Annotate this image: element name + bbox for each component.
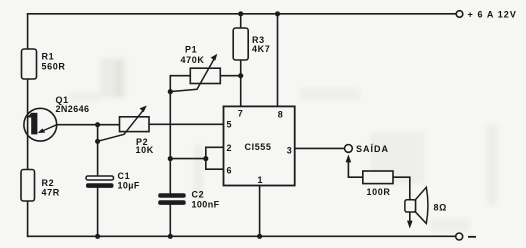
- svg-text:2: 2: [227, 143, 232, 153]
- P2 wiper arrow: [98, 110, 144, 142]
- wire pins 2-6 bracket: [205, 147, 207, 169]
- Q1 base bar: [31, 113, 37, 135]
- svg-text:1: 1: [258, 175, 263, 185]
- wire pin 2 stub: [206, 146, 224, 148]
- speaker LS1 8 ohm: [405, 187, 447, 228]
- node negative supply terminal: [456, 233, 476, 240]
- wire pin 8 branch: [277, 14, 279, 107]
- junction P2 wiper / C1 node: [95, 139, 100, 144]
- wire P1 right terminal: [220, 75, 240, 77]
- wire node link: [97, 125, 99, 142]
- svg-text:R2: R2: [42, 178, 55, 188]
- resistor R1: [22, 49, 66, 79]
- wire node to C1 top: [97, 141, 99, 176]
- svg-text:3: 3: [287, 145, 292, 155]
- wire pin 1 to ground rail: [259, 186, 261, 237]
- svg-text:C1: C1: [118, 171, 131, 181]
- wire speaker to arrow: [409, 212, 411, 222]
- svg-text:470K: 470K: [181, 55, 205, 65]
- junction P1 wiper / left terminal node: [168, 89, 173, 94]
- wire mid vertical to C2 top: [169, 76, 171, 194]
- arrow pointing down to ground rail: [407, 221, 413, 229]
- wire bottom rail: [28, 235, 456, 237]
- svg-text:SAÍDA: SAÍDA: [356, 144, 389, 154]
- speaker cone: [416, 187, 428, 223]
- resistor R2: [21, 170, 60, 202]
- potentiometer P1: [170, 45, 220, 92]
- wire left branch vertical: [27, 14, 29, 237]
- wire pin 3 output: [295, 147, 345, 149]
- svg-text:100nF: 100nF: [192, 200, 220, 210]
- Q1 emitter arrow: [41, 125, 57, 132]
- wire C1 bottom to ground rail: [97, 188, 99, 237]
- potentiometer P2: [98, 106, 154, 156]
- wire P2 to pin 5: [149, 123, 224, 125]
- arrow pointing up to SAIDA node: [346, 154, 352, 162]
- junction C2 / pins 2-6 node: [168, 156, 173, 161]
- capacitor C2: [158, 190, 219, 210]
- P1 wiper arrow: [170, 59, 214, 92]
- junction ground rail / C2 branch: [168, 234, 173, 239]
- wire top rail: [28, 13, 457, 15]
- junction ground rail / C1 branch: [95, 234, 100, 239]
- wire P1 left terminal: [170, 75, 190, 77]
- junction top rail / pin 8 branch: [275, 11, 280, 16]
- wire saida arrow drop: [348, 161, 362, 178]
- svg-text:C2: C2: [192, 190, 205, 200]
- svg-text:560R: 560R: [42, 61, 66, 71]
- svg-text:4K7: 4K7: [252, 44, 270, 54]
- wire C2 bottom to ground rail: [169, 205, 171, 237]
- wire emitter to P2: [57, 124, 120, 126]
- svg-text:CI555: CI555: [245, 142, 272, 152]
- svg-text:8: 8: [278, 110, 283, 120]
- svg-text:10K: 10K: [136, 145, 154, 155]
- capacitor C1 (electrolytic): [86, 171, 140, 191]
- svg-text:+ 6 A 12V: + 6 A 12V: [468, 9, 518, 19]
- svg-text:10µF: 10µF: [118, 181, 140, 191]
- junction Q1 emitter / P2 node: [95, 122, 100, 127]
- junction pins 2-6 bracket midpoint: [203, 156, 208, 161]
- IC U1 CI555 timer body: [224, 106, 295, 185]
- wire R3 branch pin 7: [240, 14, 242, 107]
- resistor R3: [233, 28, 270, 60]
- svg-text:47R: 47R: [42, 188, 60, 198]
- svg-text:100R: 100R: [367, 187, 391, 197]
- node positive supply terminal: [456, 9, 517, 19]
- scan ghost smudges (decorative): [70, 58, 497, 232]
- svg-text:8Ω: 8Ω: [434, 202, 447, 212]
- transistor Q1 (2N2646 unijunction): [24, 95, 90, 141]
- svg-text:7: 7: [238, 109, 243, 119]
- junction top rail / R3 branch: [238, 11, 243, 16]
- junction R3 bottom / P1 right / pin 7: [238, 73, 243, 78]
- svg-text:R1: R1: [42, 52, 55, 62]
- minus sign label: [468, 236, 476, 238]
- svg-text:P1: P1: [185, 45, 197, 55]
- svg-text:5: 5: [227, 120, 232, 130]
- wire bracket to C2 node: [170, 158, 206, 160]
- svg-text:2N2646: 2N2646: [56, 104, 90, 114]
- svg-text:6: 6: [227, 165, 232, 175]
- wire pin 6 stub: [206, 168, 224, 170]
- wire 100R to speaker: [393, 177, 410, 200]
- resistor 100R: [363, 171, 393, 197]
- node SAIDA output terminal: [345, 144, 390, 162]
- junction ground rail / pin 1 branch: [257, 234, 262, 239]
